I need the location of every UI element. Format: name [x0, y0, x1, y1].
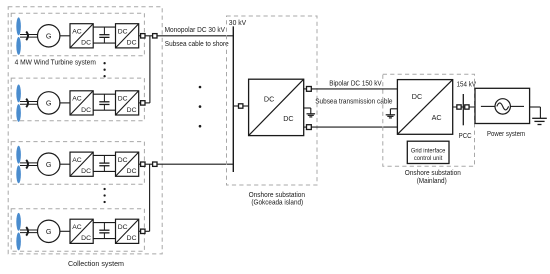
gearbox arrow WT2 [26, 99, 28, 108]
svg-text:Grid interface: Grid interface [411, 148, 446, 155]
riser wire WT4 up to string 2 feeder [149, 164, 151, 231]
string 2 feeder connector square [153, 162, 157, 166]
power system box [475, 88, 530, 123]
wire WT4 to riser [145, 230, 150, 232]
gearbox arrow WT4 [26, 227, 28, 236]
svg-text:(Mainland): (Mainland) [417, 178, 447, 185]
DC link bottom rail WT2 [93, 109, 115, 111]
svg-text:control unit: control unit [414, 155, 443, 162]
AC/DC converter WT3 [70, 152, 93, 176]
PCC left connector square [457, 105, 461, 109]
svg-text:DC: DC [118, 157, 128, 164]
DC link top rail WT3 [93, 154, 115, 156]
output connector square WT2 [141, 101, 145, 105]
wire generator to AC/DC WT2 [60, 102, 70, 104]
output connector square WT3 [141, 162, 145, 166]
DC link capacitor WT4 [103, 223, 105, 231]
svg-text:DC: DC [412, 92, 422, 101]
generator G WT4 [38, 220, 60, 242]
turbine rotor blade WT1 [16, 17, 21, 35]
wire generator to AC/DC WT1 [60, 35, 70, 37]
DC/DC converter WT2 [116, 91, 139, 115]
wire WT1 connector to string junction [145, 35, 153, 37]
svg-text:PCC: PCC [459, 133, 472, 140]
output wire WT2 [139, 102, 141, 104]
wind turbine unit WT4 dashed box [11, 209, 144, 252]
ground stub Mainland substation [390, 108, 397, 110]
svg-text:DC: DC [264, 95, 274, 104]
DC link top rail WT2 [93, 93, 115, 95]
svg-text:(Gokceada island): (Gokceada island) [251, 199, 303, 206]
wind turbine unit WT1 dashed box [11, 13, 144, 56]
svg-text:DC: DC [81, 107, 91, 114]
AC/DC converter WT4 [70, 219, 93, 243]
ground symbol Mainland [386, 114, 395, 116]
positive pole transmission wire [311, 88, 397, 90]
wire WT2 to riser [145, 102, 150, 104]
svg-text:DC: DC [81, 235, 91, 242]
AC grid source circle [495, 99, 510, 114]
svg-text:G: G [46, 227, 52, 236]
turbine shaft WT4 [20, 229, 38, 231]
svg-text:DC: DC [127, 235, 137, 242]
svg-text:DC: DC [81, 40, 91, 47]
AC/DC converter WT2 [70, 91, 93, 115]
wire power system to ground [530, 106, 541, 108]
ground stub Gokceada substation [304, 107, 311, 109]
wire Mainland substation to PCC [453, 106, 475, 108]
svg-text:AC: AC [72, 95, 82, 102]
svg-text:AC: AC [72, 28, 82, 35]
riser wire WT2 up to string 1 feeder [149, 36, 151, 103]
generator G WT2 [38, 92, 60, 114]
svg-text:DC: DC [283, 114, 293, 123]
svg-text:DC: DC [118, 95, 128, 102]
gearbox arrow WT1 [26, 32, 28, 41]
DC/DC converter WT1 [116, 24, 139, 48]
svg-text:30 kV: 30 kV [229, 20, 247, 27]
wire generator to AC/DC WT4 [60, 230, 70, 232]
svg-text:AC: AC [432, 113, 442, 122]
positive pole connector square [307, 87, 312, 92]
turbine rotor blade WT3 [16, 146, 21, 164]
grid interface control unit box [407, 141, 449, 163]
svg-text:G: G [46, 160, 52, 169]
AC grid source lead left [481, 105, 495, 107]
ellipsis dots for additional strings [199, 86, 202, 89]
DC/DC converter WT3 [116, 152, 139, 176]
DC link bottom rail WT3 [93, 170, 115, 172]
output connector square WT4 [141, 229, 145, 233]
svg-text:DC: DC [127, 107, 137, 114]
svg-text:Subsea transmission cable: Subsea transmission cable [315, 98, 392, 105]
string 1 feeder connector square [153, 34, 157, 38]
PCC right connector square [465, 105, 469, 109]
wire DC bus to onshore substation input [233, 105, 248, 107]
ground symbol Gokceada [307, 113, 316, 115]
DC link bottom rail WT4 [93, 238, 115, 240]
DC bus 30 kV vertical line [232, 26, 234, 172]
ground symbol power system [532, 117, 547, 119]
wind turbine unit WT3 dashed box [11, 142, 144, 185]
gearbox arrow WT3 [26, 160, 28, 169]
negative pole output stub [304, 126, 307, 128]
output connector square WT1 [141, 34, 145, 38]
svg-text:Bipolar DC 150 kV: Bipolar DC 150 kV [329, 80, 382, 87]
feeder wire string 1 to DC bus [157, 35, 233, 37]
turbine shaft WT3 [20, 162, 38, 164]
onshore substation Mainland dashed boundary [383, 74, 475, 166]
negative pole connector square [307, 125, 312, 130]
svg-text:Subsea cable to shore: Subsea cable to shore [165, 41, 229, 48]
wire WT3 connector to string junction [145, 163, 153, 165]
DC link top rail WT1 [93, 26, 115, 28]
substation input connector square [239, 104, 243, 108]
output wire WT3 [139, 163, 141, 165]
svg-text:AC: AC [72, 157, 82, 164]
svg-text:154 kV: 154 kV [457, 82, 477, 89]
turbine shaft WT2 [20, 101, 38, 103]
ellipsis dots between WT3 and WT4 [103, 188, 105, 190]
collection system dashed boundary [8, 7, 162, 254]
turbine shaft WT1 [20, 33, 38, 35]
output wire WT1 [139, 35, 141, 37]
AC grid source lead right [510, 105, 524, 107]
generator G WT3 [38, 153, 60, 175]
AC/DC converter WT1 [70, 24, 93, 48]
PCC bus bar [462, 94, 464, 125]
DC/DC converter U1 Gokceada substation [249, 79, 304, 135]
generator G WT1 [38, 25, 60, 47]
negative pole transmission wire [311, 126, 397, 128]
DC/AC converter U2 Mainland substation [397, 80, 452, 135]
svg-text:Onshore substation: Onshore substation [249, 192, 305, 199]
svg-text:DC: DC [118, 224, 128, 231]
svg-text:AC: AC [72, 224, 82, 231]
DC link capacitor WT2 [103, 94, 105, 102]
DC link capacitor WT1 [103, 27, 105, 35]
svg-text:4 MW Wind Turbine system: 4 MW Wind Turbine system [15, 59, 96, 66]
output wire WT4 [139, 230, 141, 232]
feeder wire string 2 to DC bus [157, 163, 233, 165]
svg-text:Onshore substation: Onshore substation [405, 170, 461, 177]
svg-text:DC: DC [127, 40, 137, 47]
svg-text:Collection system: Collection system [68, 261, 124, 268]
svg-text:G: G [46, 31, 52, 40]
wire generator to AC/DC WT3 [60, 163, 70, 165]
DC link capacitor WT3 [103, 155, 105, 163]
svg-text:Power system: Power system [487, 131, 525, 138]
onshore substation Gokceada dashed boundary [227, 16, 318, 185]
svg-text:DC: DC [118, 28, 128, 35]
turbine rotor blade WT4 [16, 213, 21, 231]
DC link top rail WT4 [93, 222, 115, 224]
svg-text:DC: DC [81, 168, 91, 175]
svg-text:Monopolar DC 30 kV: Monopolar DC 30 kV [165, 27, 226, 34]
svg-text:G: G [46, 99, 52, 108]
DC/DC converter WT4 [116, 219, 139, 243]
turbine rotor blade WT2 [16, 85, 21, 103]
svg-text:DC: DC [127, 168, 137, 175]
positive pole output stub [304, 88, 307, 90]
DC link bottom rail WT1 [93, 42, 115, 44]
wind turbine unit WT2 dashed box [11, 78, 144, 121]
ellipsis dots between WT1 and WT2 [103, 62, 105, 64]
